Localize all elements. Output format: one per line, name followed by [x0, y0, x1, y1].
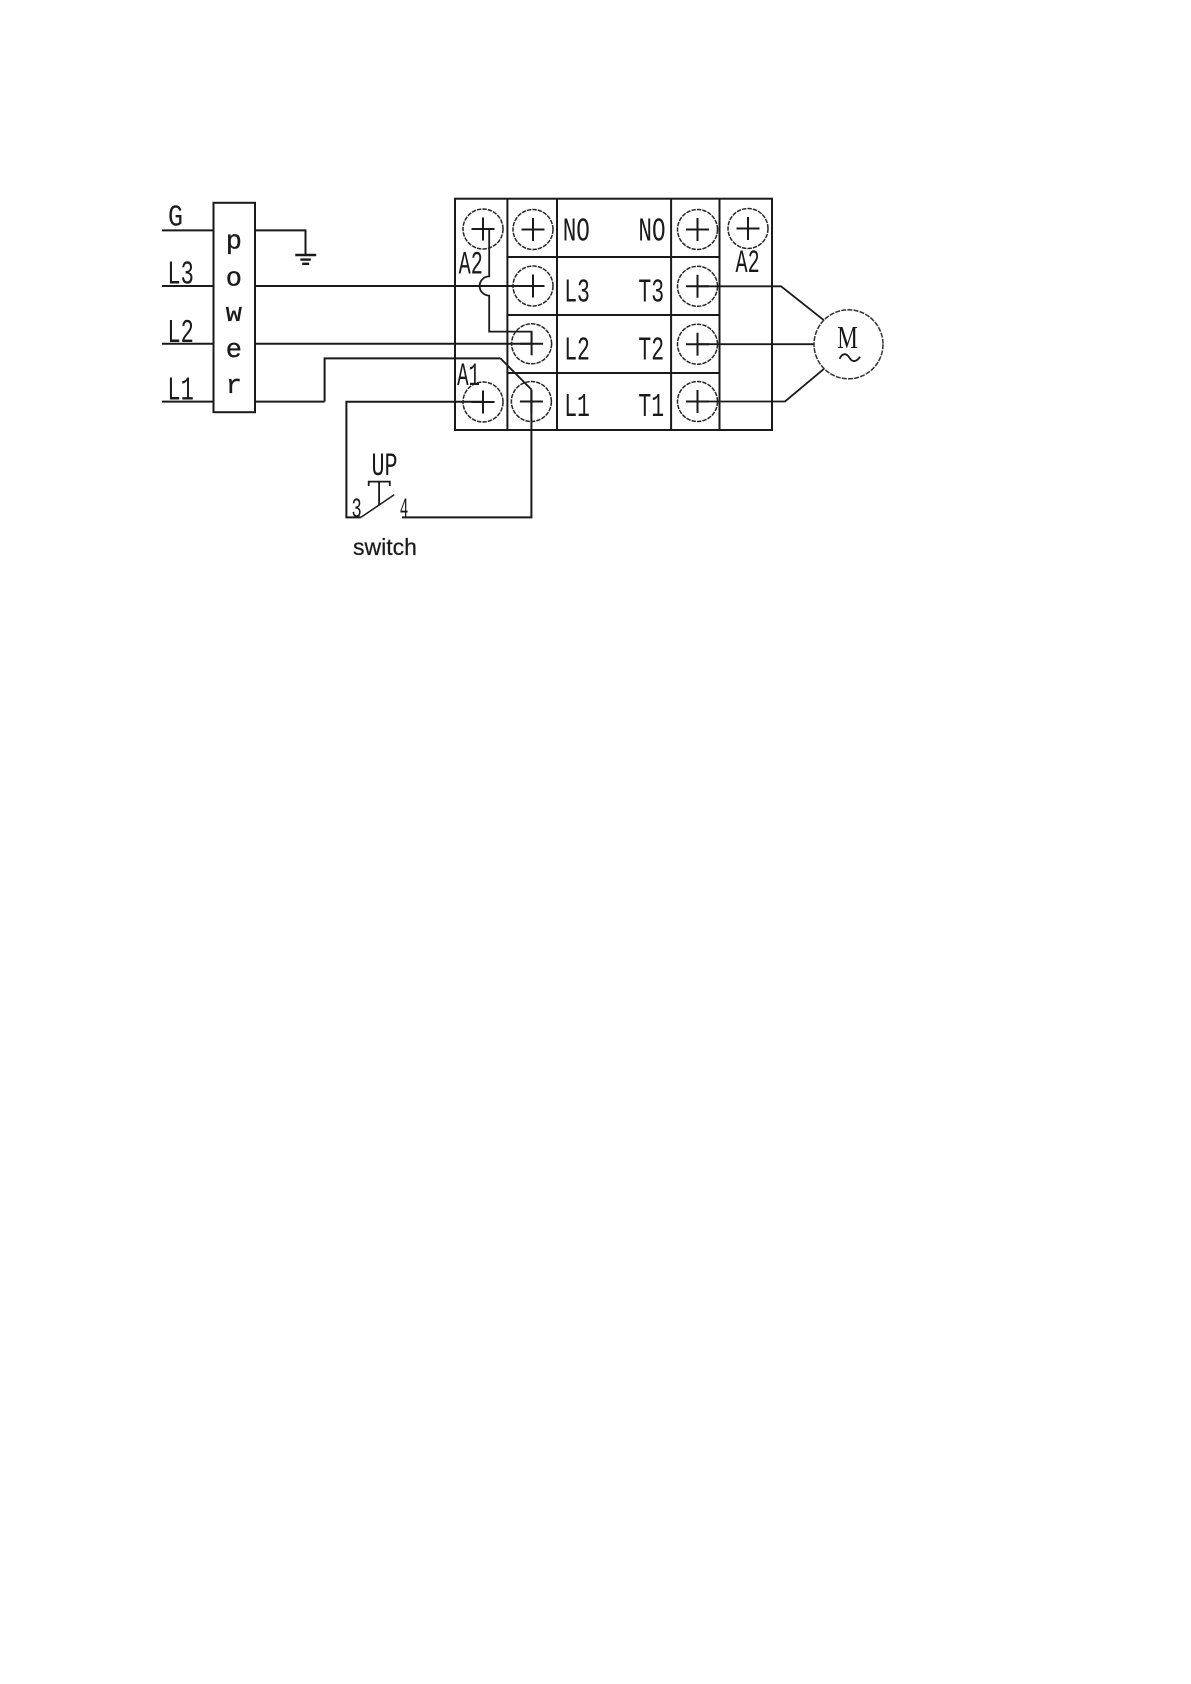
svg-text:L2: L2 [564, 333, 590, 370]
terminal screw A1 coil [463, 382, 503, 422]
wire ground (from power box to earth symbol) [255, 230, 306, 255]
switch actuator T bar [369, 482, 390, 505]
wire coil A2 to terminal L2 (with hop over L3 wire) [480, 229, 532, 345]
svg-text:M: M [837, 319, 858, 355]
svg-text:A1: A1 [457, 358, 480, 395]
svg-text:UP: UP [372, 448, 398, 485]
svg-text:L1: L1 [564, 389, 590, 426]
terminal screw L1 [511, 382, 551, 422]
svg-text:L3: L3 [167, 257, 193, 294]
wire G [162, 229, 214, 231]
wire L1 riser and step to terminal L1 [325, 358, 501, 401]
svg-text:3: 3 [352, 495, 362, 526]
terminal screw L3 [513, 266, 553, 306]
motor M circle [814, 310, 883, 379]
svg-text:T1: T1 [638, 389, 664, 426]
svg-text:switch: switch [353, 534, 417, 560]
terminal screw L2 [512, 324, 552, 364]
svg-text:e: e [226, 336, 242, 366]
terminal screw NO right (col4 row1) [678, 210, 718, 250]
row divider 1 [507, 256, 719, 258]
svg-text:A2: A2 [736, 245, 760, 282]
wire diagonal into terminal L1 [501, 358, 532, 389]
svg-text:L1: L1 [167, 372, 193, 409]
terminal screw A2 right (col5) [728, 209, 768, 249]
svg-text:L3: L3 [564, 275, 590, 312]
svg-text:o: o [226, 265, 242, 295]
svg-text:NO: NO [563, 214, 590, 251]
column divider 4 [719, 199, 721, 430]
column divider 2 [556, 199, 558, 430]
svg-text:A2: A2 [459, 247, 483, 284]
power source block [214, 203, 256, 412]
svg-text:NO: NO [638, 214, 665, 251]
switch blade (pin3 to pin4 diagonal) [361, 495, 394, 518]
wire L2 (power to terminal L2) [162, 343, 533, 345]
motor tilde [840, 354, 861, 361]
row divider 2 [507, 314, 719, 316]
ground (earth symbol) [295, 255, 316, 264]
svg-text:T3: T3 [638, 275, 664, 312]
row divider 3 [507, 372, 719, 374]
terminal screw NO top (col2 row1) [513, 210, 553, 250]
wire L3 (power to terminal L3) [162, 285, 533, 287]
wire T1 to motor [698, 369, 825, 402]
terminal screw A2 coil left [463, 209, 503, 249]
svg-text:r: r [226, 372, 242, 402]
wire T3 to motor [698, 286, 825, 320]
column divider 1 [506, 199, 508, 430]
wire L1 from power [162, 401, 325, 403]
terminal screw T3 [678, 266, 718, 306]
wire switch pin 3 to coil A1 [346, 402, 483, 518]
svg-text:L2: L2 [167, 315, 193, 352]
terminal screw T2 [678, 324, 718, 364]
svg-text:4: 4 [400, 495, 409, 526]
contactor terminal block outline [455, 199, 772, 430]
wire T2 to motor [698, 343, 815, 345]
wire terminal L1 down to switch pin 4 [402, 390, 531, 518]
column divider 3 [670, 199, 672, 430]
svg-text:T2: T2 [638, 333, 664, 370]
power block label (p o w e r stacked) [226, 228, 242, 403]
svg-text:p: p [226, 228, 242, 258]
svg-text:w: w [226, 300, 242, 330]
terminal screw T1 [678, 382, 718, 422]
